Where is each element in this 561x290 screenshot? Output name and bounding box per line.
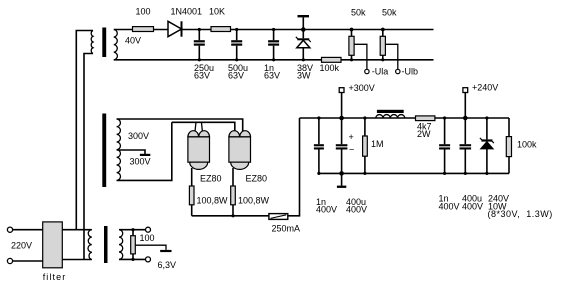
resistor R6 1M: [363, 116, 368, 175]
svg-text:400V: 400V: [462, 202, 483, 212]
svg-text:300V: 300V: [130, 157, 151, 167]
svg-text:40V: 40V: [125, 36, 141, 46]
transformer T2 core: [102, 114, 106, 188]
resistor R9 100 hum pot: [131, 228, 136, 261]
resistor R5 100,8W: [231, 168, 236, 216]
wire filter to primary top: [62, 229, 92, 231]
ground hum pot: [160, 250, 171, 252]
transformer T1 core: [102, 28, 106, 58]
svg-text:−: −: [349, 145, 354, 155]
svg-text:10K: 10K: [209, 7, 225, 17]
tube V1 EZ80: [188, 123, 210, 170]
svg-text:filter: filter: [43, 272, 67, 282]
svg-text:EZ80: EZ80: [200, 174, 222, 184]
svg-text:250mA: 250mA: [272, 224, 301, 234]
capacitor C1 250u: [194, 28, 205, 62]
transformer T3 secondary 6,3V winding: [119, 230, 123, 260]
svg-text:+: +: [349, 132, 354, 142]
svg-text:3W: 3W: [297, 71, 311, 81]
inductor L1 choke: [376, 110, 405, 118]
svg-text:1N4001: 1N4001: [171, 7, 203, 17]
zener diode D2 38V 3W with top bar: [296, 15, 311, 61]
ground center tap: [140, 154, 150, 156]
wire primary bus right: [84, 54, 93, 260]
wire B+ main rail: [300, 117, 510, 119]
wire center tap to ground: [117, 150, 145, 154]
svg-text:50k: 50k: [351, 8, 366, 18]
wire fuse to riser: [288, 118, 300, 216]
svg-text:63V: 63V: [228, 71, 244, 81]
potentiometer P2 50k: [380, 28, 400, 74]
wire 220V upper: [13, 229, 43, 231]
svg-text:100,8W: 100,8W: [197, 196, 229, 206]
zener diode D3 240V 10W: [480, 116, 494, 175]
svg-text:100k: 100k: [517, 140, 537, 150]
wire 6,3V lower: [119, 258, 146, 260]
svg-text:+240V: +240V: [472, 83, 498, 93]
svg-text:300V: 300V: [128, 131, 149, 141]
tube V2 EZ80: [229, 131, 251, 170]
terminal 220V upper: [7, 227, 12, 232]
resistor R4 100,8W: [189, 168, 194, 216]
svg-text:6,3V: 6,3V: [158, 260, 177, 270]
wire bottom rail: [114, 59, 434, 61]
wire 220V lower: [13, 260, 43, 262]
potentiometer P1 50k: [349, 28, 369, 74]
resistor R8 100k: [506, 118, 511, 173]
svg-text:EZ80: EZ80: [246, 174, 268, 184]
wire ground rail: [319, 172, 509, 174]
capacitor C6 1n 400V: [439, 116, 450, 175]
svg-text:1M: 1M: [371, 139, 384, 149]
wire filter to primary bottom: [62, 259, 92, 261]
wire primary bus left: [76, 31, 93, 230]
transformer T3 core: [104, 226, 108, 263]
svg-text:400V: 400V: [439, 202, 460, 212]
transformer T1 primary winding: [91, 31, 93, 54]
ground below C5: [337, 173, 346, 188]
svg-text:-Ulb: -Ulb: [402, 67, 419, 77]
svg-text:100: 100: [136, 7, 151, 17]
transformer T1 secondary 40V winding: [114, 30, 118, 60]
svg-text:(8*30V, 1.3W): (8*30V, 1.3W): [488, 209, 553, 219]
wire top rail: [114, 29, 434, 31]
svg-text:50k: 50k: [382, 8, 397, 18]
svg-text:220V: 220V: [11, 241, 32, 251]
terminal +240V: [463, 88, 468, 118]
svg-text:400V: 400V: [346, 205, 367, 215]
wire riser winding bottom: [117, 122, 172, 180]
wire cathode bus: [192, 215, 269, 217]
svg-text:63V: 63V: [264, 71, 280, 81]
svg-text:100,8W: 100,8W: [238, 196, 270, 206]
svg-text:-Ula: -Ula: [372, 67, 389, 77]
transformer T2 secondary 300V+300V winding: [117, 119, 121, 180]
resistor R1 100: [133, 27, 154, 32]
svg-text:400V: 400V: [316, 205, 337, 215]
capacitor C3 1n: [268, 28, 279, 62]
terminal 6,3V lower: [146, 257, 151, 262]
resistor R3 100k: [322, 57, 342, 62]
capacitor C7 400u 400V: [460, 116, 472, 175]
transformer T3 primary winding: [88, 230, 92, 260]
svg-text:2W: 2W: [417, 129, 431, 139]
wire HT second to tubes: [172, 122, 235, 131]
capacitor C5 400u 400V electrolytic: [336, 116, 354, 176]
resistor R7 4k7 2W: [416, 116, 435, 121]
terminal 6,3V upper: [146, 227, 151, 232]
svg-text:100k: 100k: [320, 63, 340, 73]
svg-text:+300V: +300V: [349, 83, 375, 93]
terminal +300V: [339, 88, 344, 118]
filter box: [43, 222, 63, 268]
wire 6,3V upper: [119, 229, 146, 231]
fuse F1 250mA: [269, 214, 288, 220]
svg-text:100: 100: [140, 233, 155, 243]
svg-text:63V: 63V: [194, 71, 210, 81]
wire HT top to right tube: [117, 119, 243, 132]
node cathode junction: [231, 214, 234, 217]
wire wiper to ground: [135, 245, 166, 250]
terminal 220V lower: [7, 258, 12, 263]
diode D1 1N4001: [168, 21, 182, 36]
resistor R2 10K: [211, 27, 231, 32]
capacitor C2 500u: [231, 28, 242, 62]
capacitor C4 1n 400V: [314, 116, 324, 175]
